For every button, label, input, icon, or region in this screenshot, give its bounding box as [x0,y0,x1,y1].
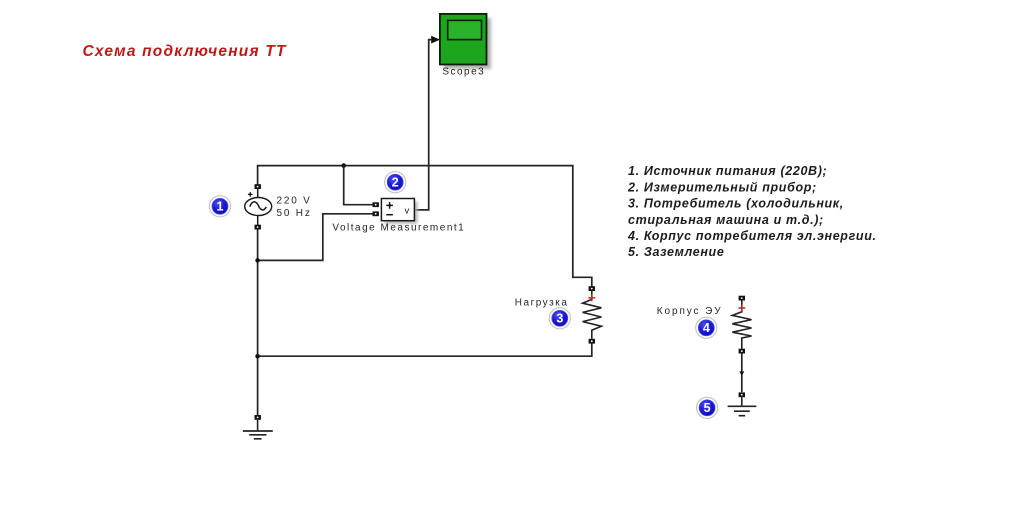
load resistor R1 red polarity plus [588,295,595,302]
equipment body resistor R2 stub and zigzag [732,300,751,348]
svg-text:2. Измерительный прибор;: 2. Измерительный прибор; [627,180,817,194]
annotation badge 3 [549,308,570,329]
wire: J1 down to VM plus input [344,166,373,205]
ground G2 terminal [739,392,745,397]
AC source V1 top terminal [255,184,261,189]
svg-text:3. Потребитель (холодильник,: 3. Потребитель (холодильник, [628,197,844,211]
svg-text:Схема подключения ТТ: Схема подключения ТТ [83,43,287,60]
annotation badge 1 [209,196,230,217]
U2 minus input port [373,211,379,216]
load resistor R1 stub and zigzag [583,291,602,339]
scope U3 screen [448,20,482,39]
wire direction arrowhead [739,371,744,375]
svg-text:Нагрузка: Нагрузка [515,298,569,309]
ground G2 symbol [728,406,757,415]
AC source V1 body [245,198,272,216]
ground G2 stub [741,397,743,406]
U2 minus pin label [386,214,393,216]
svg-text:Voltage Measurement1: Voltage Measurement1 [332,223,465,234]
svg-text:Scope3: Scope3 [442,67,485,78]
svg-text:4: 4 [703,321,710,335]
ground G1 symbol [243,431,273,439]
node junction J1 [341,163,346,168]
svg-text:Корпус ЭУ: Корпус ЭУ [657,306,723,317]
load resistor R1 bottom terminal [589,339,595,344]
svg-text:2: 2 [392,176,399,190]
svg-text:4. Корпус потребителя эл.энерг: 4. Корпус потребителя эл.энергии. [627,229,877,243]
annotation: legend list [627,164,877,259]
wire: VM minus loop to left rail [258,214,373,261]
AC source V1 bottom terminal [255,225,261,230]
annotation badge 4 [696,317,717,338]
ground G1 terminal [255,415,261,420]
ground G1 stub [257,420,259,431]
equipment body resistor R2 top terminal [739,296,745,301]
annotation badge 5 [697,397,718,418]
voltage measurement U2 body [381,199,414,221]
annotation badge 2 [385,172,406,193]
equipment body resistor R2 red polarity plus [738,305,745,312]
svg-text:стиральная машина и т.д.);: стиральная машина и т.д.); [628,213,824,227]
svg-text:1. Источник питания (220В);: 1. Источник питания (220В); [628,164,827,178]
U2 plus pin label [386,202,393,209]
wire: source bottom down the left side [257,226,259,416]
equipment body resistor R2 bottom terminal [739,349,745,354]
wire: source top stub [257,186,259,198]
svg-text:5: 5 [704,401,711,415]
AC source V1 plus polarity [248,192,253,197]
wire: load bottom back to left rail [258,343,592,356]
AC source V1 sine [250,202,266,210]
svg-text:220 V: 220 V [277,196,312,207]
node junction J3 [255,354,260,359]
scope U3 shadow [444,18,491,69]
node junction J2 [255,258,260,263]
scope U3 body [440,14,487,65]
svg-text:1: 1 [217,200,224,214]
svg-text:50 Hz: 50 Hz [277,208,312,219]
wire: top rail from source to load [258,166,592,287]
svg-text:3: 3 [556,312,563,326]
voltage measurement U2 shadow [385,202,418,224]
wire: R2 to ground G2 with direction arrow [741,354,743,393]
U2 plus input port [373,202,379,207]
wire: source bottom stub [257,215,259,227]
svg-text:v: v [405,206,410,217]
arrowhead into scope [431,36,440,44]
load resistor R1 top terminal [589,286,595,291]
wire: VM output up to scope [415,40,432,210]
svg-text:5. Заземление: 5. Заземление [628,245,724,259]
